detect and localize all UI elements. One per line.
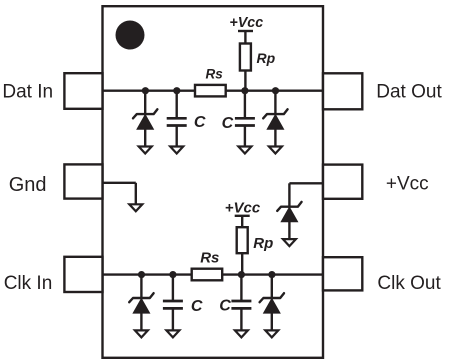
+Vcc supply terminal (clock)	[235, 216, 250, 228]
capacitor C3 (clk in)	[163, 275, 183, 338]
pin +Vcc	[323, 165, 362, 199]
svg-text:Rs: Rs	[206, 67, 224, 82]
capacitor C2 (data out)	[235, 91, 255, 154]
svg-text:C: C	[222, 115, 234, 132]
+Vcc supply terminal (data)	[238, 31, 253, 45]
zener diode D5 (+Vcc clamp)	[277, 183, 301, 246]
resistor Rs (clock)	[192, 269, 223, 281]
pin Clk Out	[323, 257, 362, 290]
junction data/D2	[272, 87, 279, 94]
resistor Rp (data)	[240, 44, 251, 71]
pin 1 marker dot	[116, 21, 145, 50]
wire +Vcc pin to clamp	[289, 182, 322, 184]
svg-text:Rs: Rs	[200, 250, 219, 267]
capacitor C1 (data in)	[167, 91, 187, 154]
wire Gnd pin to ground	[103, 183, 136, 205]
pin Dat In	[64, 73, 102, 109]
IC body outline	[103, 6, 324, 358]
pin Clk In	[64, 257, 102, 292]
svg-text:Dat In: Dat In	[2, 81, 53, 102]
svg-text:Rp: Rp	[253, 235, 273, 252]
junction data/Rp/C2	[241, 87, 248, 94]
zener diode D2 (data out clamp)	[263, 91, 287, 154]
junction data/D1	[142, 87, 149, 94]
wire data line Dat In to Dat Out	[103, 89, 322, 91]
svg-text:Gnd: Gnd	[9, 174, 47, 196]
pin Gnd	[64, 164, 102, 198]
svg-text:+Vcc: +Vcc	[229, 15, 263, 31]
ground symbol (Gnd pin)	[129, 204, 142, 211]
pin Dat Out	[323, 73, 362, 109]
capacitor C4 (clk out)	[231, 275, 251, 338]
wire Rp to clock line	[241, 253, 243, 275]
wire clock line Clk In to Clk Out	[103, 273, 322, 275]
svg-text:Clk Out: Clk Out	[377, 273, 441, 294]
junction clk/D3	[138, 271, 145, 278]
wire Rp to data line	[244, 71, 246, 91]
resistor Rp (clock)	[237, 227, 248, 253]
junction clk/Rp/C4	[238, 271, 245, 278]
zener diode D4 (clk out clamp)	[260, 275, 284, 338]
svg-text:C: C	[191, 298, 203, 315]
zener diode D3 (clk in clamp)	[129, 275, 153, 338]
svg-text:+Vcc: +Vcc	[225, 199, 261, 216]
junction data/C1	[173, 87, 180, 94]
svg-text:Clk In: Clk In	[4, 273, 53, 294]
svg-text:Rp: Rp	[257, 50, 276, 66]
svg-text:Dat Out: Dat Out	[376, 82, 442, 103]
zener diode D1 (data in clamp)	[133, 91, 157, 154]
svg-text:C: C	[194, 114, 206, 131]
junction clk/D4	[268, 271, 275, 278]
svg-text:+Vcc: +Vcc	[386, 174, 429, 195]
svg-text:C: C	[219, 298, 231, 315]
junction clk/C3	[169, 271, 176, 278]
resistor Rs (data)	[195, 85, 226, 97]
